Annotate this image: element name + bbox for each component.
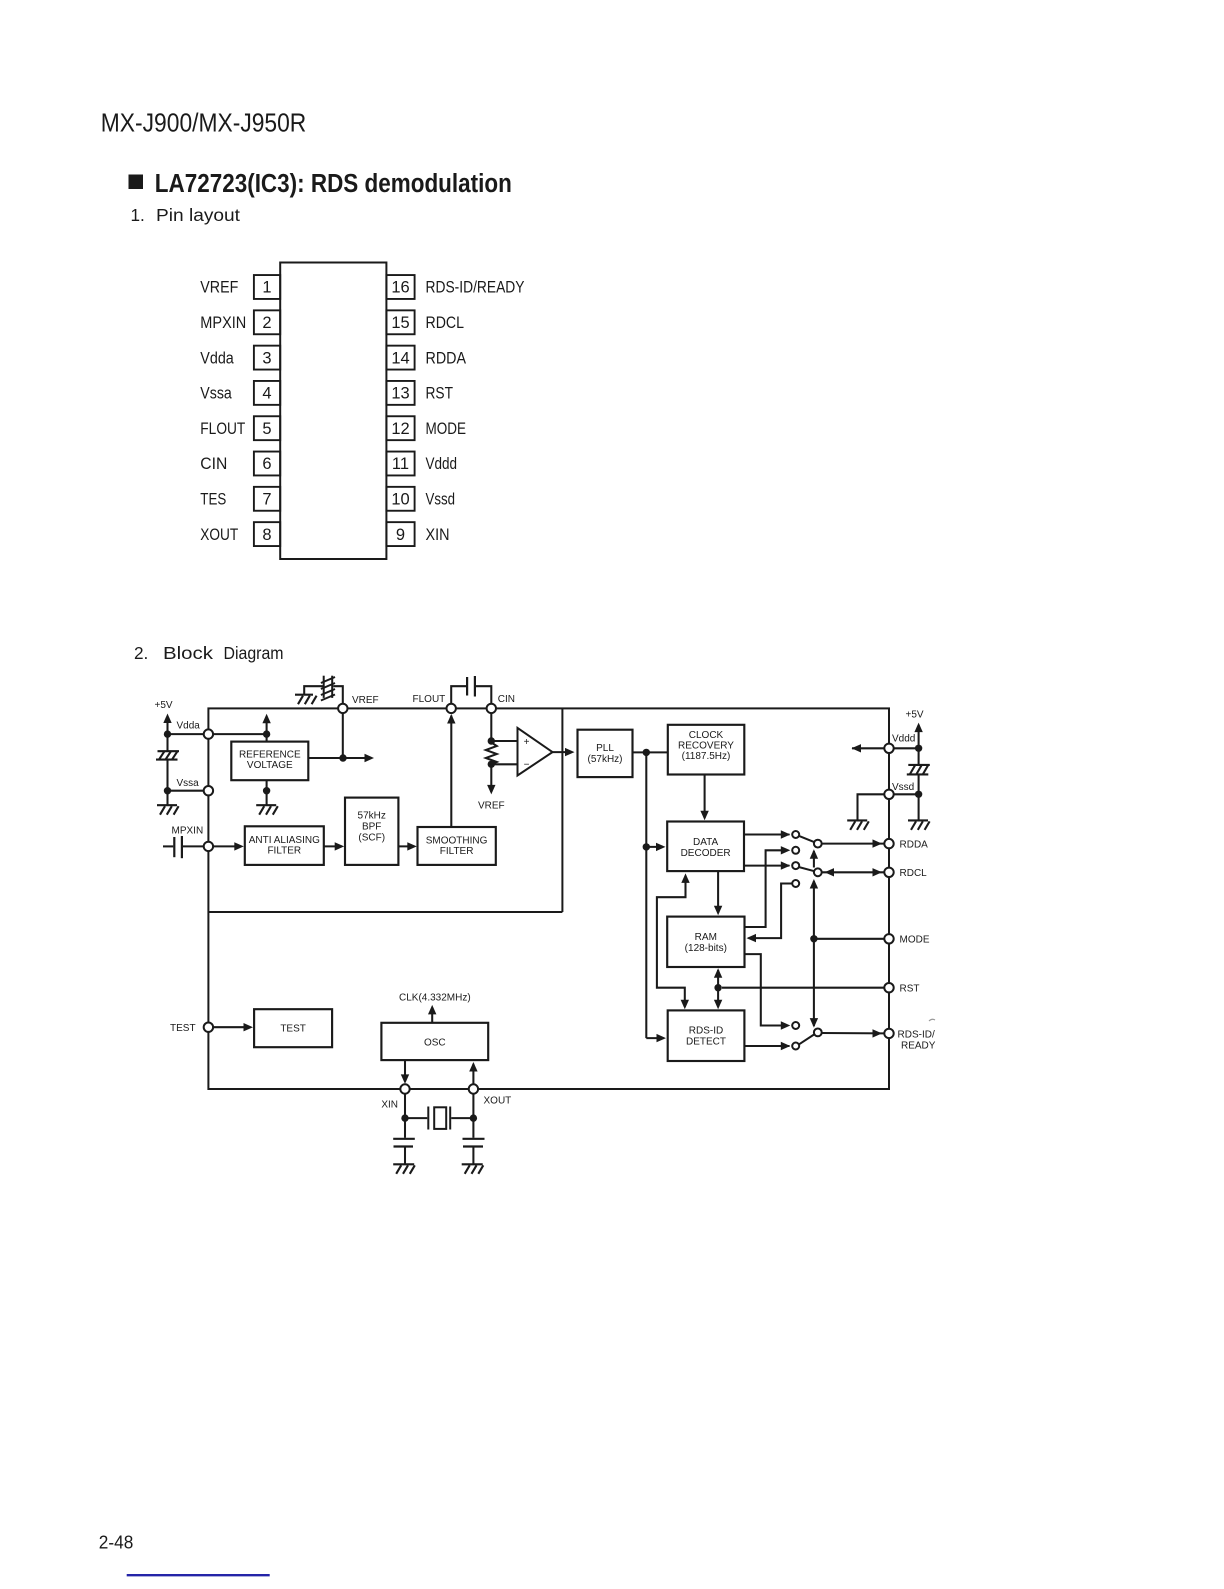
svg-text:1: 1 <box>262 279 271 297</box>
switch lever RDDA <box>799 836 815 843</box>
svg-text:Vddd: Vddd <box>426 455 458 473</box>
node CIN <box>487 704 496 713</box>
wire down to analog ground symbol <box>166 734 168 751</box>
pin 14 box <box>386 346 414 370</box>
contact RDCL upper <box>792 862 799 869</box>
pin 13 box <box>386 381 414 405</box>
crystal X1 <box>405 1117 427 1119</box>
wire XIN to crystal node <box>404 1094 406 1118</box>
junction PLL output <box>643 749 650 756</box>
svg-text:2.: 2. <box>134 643 148 663</box>
svg-text:PLL: PLL <box>596 743 614 754</box>
svg-text:2-48: 2-48 <box>99 1533 134 1553</box>
wire Vddd to +5V rail <box>893 747 918 749</box>
svg-text:XIN: XIN <box>381 1100 398 1111</box>
pin 3 box <box>254 346 280 370</box>
svg-text:8: 8 <box>262 526 271 544</box>
svg-text:4: 4 <box>262 385 271 403</box>
svg-text:(57kHz): (57kHz) <box>587 754 622 765</box>
wire capacitor to MPXIN pin <box>183 845 204 847</box>
wire RST up to RAM <box>717 970 719 988</box>
node VREF <box>338 704 347 713</box>
svg-text:Diagram: Diagram <box>224 643 284 663</box>
svg-text:Vssa: Vssa <box>200 385 232 403</box>
svg-text:16: 16 <box>391 279 409 297</box>
wire RDDA pivot to pin <box>822 843 885 845</box>
analog section boundary bottom edge <box>208 911 562 913</box>
svg-text:+: + <box>524 737 530 748</box>
svg-text:CIN: CIN <box>498 694 515 705</box>
op-amp comparator <box>518 728 553 776</box>
node MODE <box>884 934 893 943</box>
pin 11 box <box>386 452 414 476</box>
wire VREF pin to external filter <box>333 686 343 704</box>
svg-text:Vssd: Vssd <box>426 491 456 509</box>
svg-text:VREF: VREF <box>478 801 505 812</box>
wire data decoder to RDCL contact <box>744 865 790 867</box>
svg-text:ANTI ALIASING: ANTI ALIASING <box>249 835 320 846</box>
wire rail to earth ground right <box>918 794 920 820</box>
svg-text:TEST: TEST <box>170 1023 196 1034</box>
svg-text:14: 14 <box>391 349 409 367</box>
svg-text:FLOUT: FLOUT <box>413 694 446 705</box>
svg-text:MODE: MODE <box>426 420 467 438</box>
node RDDA <box>884 839 893 848</box>
svg-text:3: 3 <box>262 349 271 367</box>
wire data decoder to RDDA contact <box>744 833 790 835</box>
pin 9 box <box>386 522 414 546</box>
wire Vssd into chip ground <box>858 794 885 820</box>
wire ground to Vssa rail <box>166 760 168 791</box>
pivot RDCL switch <box>814 868 822 876</box>
junction Vssa rail <box>164 787 171 794</box>
svg-text:RDCL: RDCL <box>426 314 465 332</box>
pin 5 box <box>254 416 280 440</box>
IC3 package body <box>280 263 386 560</box>
wire AAF to BPF <box>324 845 342 847</box>
svg-text:SMOOTHING: SMOOTHING <box>426 836 488 847</box>
wire chassis ground to Vssd rail <box>918 774 920 794</box>
svg-text:BPF: BPF <box>362 822 381 833</box>
svg-text:13: 13 <box>391 385 409 403</box>
svg-text:CIN: CIN <box>200 455 227 473</box>
block 57kHz BPF SCF <box>345 798 398 865</box>
wire MODE pin to control rail <box>814 938 884 940</box>
wire PLL output down to decoders <box>645 752 647 1038</box>
block SMOOTHING FILTER <box>418 827 496 865</box>
wire resistor bottom to VREF <box>490 764 492 792</box>
wire to earth ground <box>166 791 168 806</box>
junction RST branch <box>714 984 721 991</box>
pin 15 box <box>386 310 414 334</box>
junction Vdda branch <box>263 730 270 737</box>
ground at VREF filter <box>295 695 317 705</box>
svg-text:XIN: XIN <box>426 526 450 544</box>
svg-text:TEST: TEST <box>280 1024 306 1035</box>
MPXIN coupling capacitor <box>174 836 182 858</box>
block RAM 128-bits <box>667 917 744 967</box>
svg-text:2: 2 <box>262 314 271 332</box>
ground below Vssa <box>157 805 179 815</box>
contact RDS-ID upper <box>792 1022 799 1029</box>
wire PLL to clock recovery <box>633 751 668 753</box>
svg-text:Vssa: Vssa <box>177 778 200 789</box>
svg-text:XOUT: XOUT <box>484 1096 512 1107</box>
svg-text:FILTER: FILTER <box>267 846 301 857</box>
wire BPF to smoothing filter <box>398 845 414 847</box>
svg-text:LA72723(IC3): RDS demodulation: LA72723(IC3): RDS demodulation <box>155 170 512 198</box>
junction decoder input <box>643 843 650 850</box>
wire RAM to middle contact <box>745 850 788 927</box>
pin 4 box <box>254 381 280 405</box>
svg-text:Vssd: Vssd <box>892 782 914 793</box>
pivot RDDA switch <box>814 840 822 848</box>
svg-text:VOLTAGE: VOLTAGE <box>247 760 293 771</box>
svg-text:FILTER: FILTER <box>440 846 474 857</box>
analog section boundary right edge <box>561 708 563 912</box>
wire data decoder to RAM <box>717 871 719 913</box>
wire clock recovery to data decoder <box>704 775 706 819</box>
block TEST <box>254 1009 332 1047</box>
resistor at CIN <box>486 743 497 765</box>
svg-text:5: 5 <box>262 420 271 438</box>
wire contact to RAM input <box>749 884 792 939</box>
junction Vssd rail <box>915 791 922 798</box>
svg-text:10: 10 <box>391 491 409 509</box>
switch lever RDCL <box>799 867 815 871</box>
wire reference voltage output <box>308 757 371 759</box>
svg-text:RST: RST <box>426 385 454 403</box>
wire RST down to RDS-ID detect <box>717 988 719 1007</box>
svg-text:6: 6 <box>262 455 271 473</box>
wire TEST pin to test block <box>213 1026 250 1028</box>
svg-text:12: 12 <box>391 420 409 438</box>
svg-text:RDDA: RDDA <box>900 839 929 850</box>
svg-text:1.: 1. <box>131 205 145 225</box>
pivot RDS-ID switch <box>814 1029 822 1037</box>
junction on +5V rail <box>164 730 171 737</box>
wire RDCL pivot to pin bidirectional <box>822 871 884 873</box>
junction MODE control <box>810 935 817 942</box>
svg-text:+5V: +5V <box>906 710 924 721</box>
chassis ground right rail <box>907 765 930 775</box>
svg-text:RDS-ID/: RDS-ID/ <box>898 1029 935 1040</box>
MPXIN input stub <box>163 845 173 847</box>
wire reference voltage to Vssa rail <box>266 780 268 791</box>
ground right rail <box>908 820 930 830</box>
+5V supply arrow left <box>166 717 168 735</box>
svg-text:RECOVERY: RECOVERY <box>678 741 734 752</box>
pin 10 box <box>386 487 414 511</box>
+5V supply arrow right <box>918 725 920 748</box>
svg-text:Vdda: Vdda <box>200 349 234 367</box>
block RDS-ID DETECT <box>668 1010 745 1061</box>
switch control link RDDA <box>813 851 815 868</box>
wire smoothing filter up to FLOUT <box>450 716 452 828</box>
svg-text:RDCL: RDCL <box>900 868 928 879</box>
switch control link RDCL to mode rail <box>813 881 815 1026</box>
svg-text:MPXIN: MPXIN <box>172 825 204 836</box>
wire junction to data decoder <box>646 846 663 848</box>
svg-text:9: 9 <box>396 526 405 544</box>
wire rail to chassis ground <box>918 748 920 765</box>
ground inside at Vssd <box>847 820 869 830</box>
svg-text:Vddd: Vddd <box>892 734 915 745</box>
junction below reference voltage <box>263 787 270 794</box>
pin 1 box <box>254 275 280 299</box>
contact RDDA upper <box>792 831 799 838</box>
wire to comparator plus input <box>491 740 517 742</box>
node Vssa <box>204 786 213 795</box>
chassis ground below +5V <box>156 751 179 759</box>
IC internal boundary box <box>208 708 889 1089</box>
block OSC <box>381 1023 488 1060</box>
svg-text:MX-J900/MX-J950R: MX-J900/MX-J950R <box>101 108 306 138</box>
svg-text:(SCF): (SCF) <box>358 833 385 844</box>
wire RDS-ID pivot to pin <box>822 1032 885 1034</box>
svg-text:Pin layout: Pin layout <box>156 205 240 225</box>
junction +5V right rail <box>915 745 922 752</box>
capacitor at XIN <box>404 1118 406 1138</box>
node Vdda <box>204 729 213 738</box>
contact below RDCL <box>792 880 799 887</box>
wire filter to ground <box>304 686 324 695</box>
section bullet <box>129 175 144 190</box>
svg-text:(128-bits): (128-bits) <box>685 943 727 954</box>
svg-text:DATA: DATA <box>693 837 719 848</box>
junction resistor bottom <box>488 761 495 768</box>
wire capacitor to CIN <box>476 686 491 704</box>
node XOUT <box>469 1084 478 1093</box>
block CLOCK RECOVERY <box>668 725 745 775</box>
wire FLOUT to coupling capacitor <box>451 686 466 704</box>
block REFERENCE VOLTAGE <box>231 742 308 781</box>
switch lever RDS-ID <box>799 1034 815 1045</box>
svg-text:RST: RST <box>900 983 920 994</box>
junction VREF internal rail <box>339 754 346 761</box>
wire to comparator minus input <box>491 763 517 765</box>
svg-text:(1187.5Hz): (1187.5Hz) <box>682 751 731 762</box>
wire +5V to Vdda pin <box>168 733 209 735</box>
node FLOUT <box>447 704 456 713</box>
svg-text:DETECT: DETECT <box>686 1037 726 1048</box>
svg-text:Vdda: Vdda <box>177 720 201 731</box>
svg-text:CLOCK: CLOCK <box>689 730 724 741</box>
block PLL 57kHz <box>578 730 633 777</box>
node RDCL <box>884 868 893 877</box>
svg-text:MODE: MODE <box>900 935 930 946</box>
wire Vssa rail to pin <box>168 790 209 792</box>
contact RDS-ID lower <box>792 1043 799 1050</box>
svg-text:Block: Block <box>163 643 213 663</box>
contact RDDA middle <box>792 847 799 854</box>
svg-text:VREF: VREF <box>200 279 238 297</box>
node RDS-ID/READY <box>884 1029 893 1038</box>
svg-text:−: − <box>524 760 530 771</box>
capacitor at XOUT <box>472 1118 474 1138</box>
wire RDS-ID detect output <box>744 1045 789 1047</box>
svg-text:RDS-ID: RDS-ID <box>689 1026 723 1037</box>
svg-text:7: 7 <box>262 491 271 509</box>
block ANTI ALIASING FILTER <box>245 826 324 865</box>
svg-text:CLK(4.332MHz): CLK(4.332MHz) <box>399 993 471 1004</box>
junction XIN crystal <box>401 1114 408 1121</box>
block DATA DECODER <box>667 822 744 872</box>
svg-text:MPXIN: MPXIN <box>200 314 246 332</box>
svg-text:RAM: RAM <box>695 932 717 943</box>
svg-text:REFERENCE: REFERENCE <box>239 750 301 761</box>
wire CIN down to resistor <box>490 713 492 741</box>
pin 6 box <box>254 452 280 476</box>
svg-text:VREF: VREF <box>352 695 379 706</box>
ground below XIN capacitor <box>393 1164 415 1174</box>
wire OSC to XIN <box>404 1060 406 1081</box>
MPXIN pin circle <box>204 842 213 851</box>
clock output arrow <box>431 1008 433 1023</box>
capacitor between FLOUT and CIN <box>467 676 475 697</box>
svg-text:READY: READY <box>901 1040 936 1051</box>
ground below XOUT capacitor <box>462 1164 484 1174</box>
wire VREF pin down to rail <box>342 713 344 758</box>
svg-text:57kHz: 57kHz <box>358 811 386 822</box>
svg-text:RDS-ID/READY: RDS-ID/READY <box>426 279 525 297</box>
svg-text:DECODER: DECODER <box>681 848 731 859</box>
node TEST <box>204 1022 213 1031</box>
svg-text:15: 15 <box>391 314 409 332</box>
pin 8 box <box>254 522 280 546</box>
wire junction to RDS-ID detect <box>646 1037 663 1039</box>
svg-text:+5V: +5V <box>155 700 173 711</box>
footer rule <box>127 1574 270 1576</box>
node RST <box>884 983 893 992</box>
junction XOUT crystal <box>470 1114 477 1121</box>
wire RAM to RDS-ID contact <box>745 954 788 1025</box>
ground below reference voltage <box>256 805 278 815</box>
wire junction to ground <box>266 791 268 806</box>
pin 7 box <box>254 487 280 511</box>
junction resistor top <box>488 737 495 744</box>
wire MPXIN to anti aliasing filter <box>213 845 241 847</box>
wire XOUT to crystal node <box>472 1094 474 1118</box>
wire comparator output to PLL <box>553 751 572 753</box>
pin 2 box <box>254 310 280 334</box>
node XIN <box>400 1084 409 1093</box>
stray scan mark <box>929 1019 935 1021</box>
wire XOUT to OSC <box>472 1064 474 1085</box>
feedback wire decoder loop <box>657 876 686 1008</box>
pin 16 box <box>386 275 414 299</box>
svg-text:OSC: OSC <box>424 1038 446 1049</box>
svg-text:11: 11 <box>392 455 409 473</box>
svg-text:TES: TES <box>200 491 226 509</box>
arrow up from Vdda junction <box>266 717 268 742</box>
wire RST to RAM and RDS-ID detect <box>722 987 884 989</box>
svg-text:RDDA: RDDA <box>426 349 467 367</box>
pin 12 box <box>386 416 414 440</box>
node Vddd <box>884 744 893 753</box>
svg-text:XOUT: XOUT <box>200 526 238 544</box>
external noise filter element at VREF <box>321 676 335 701</box>
node Vssd <box>884 790 893 799</box>
svg-text:FLOUT: FLOUT <box>200 420 245 438</box>
wire Vdda into reference voltage <box>213 733 267 735</box>
wire Vddd into chip <box>852 747 884 749</box>
wire Vssd to pin <box>893 793 918 795</box>
